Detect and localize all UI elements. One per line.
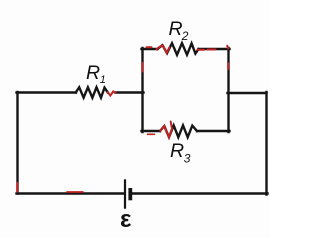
- svg-text:2: 2: [181, 29, 189, 43]
- svg-text:R: R: [170, 140, 184, 162]
- svg-text:3: 3: [184, 152, 191, 166]
- svg-text:1: 1: [100, 74, 106, 86]
- svg-text:R: R: [169, 18, 183, 40]
- svg-text:ε: ε: [120, 206, 131, 233]
- svg-text:R: R: [86, 62, 100, 84]
